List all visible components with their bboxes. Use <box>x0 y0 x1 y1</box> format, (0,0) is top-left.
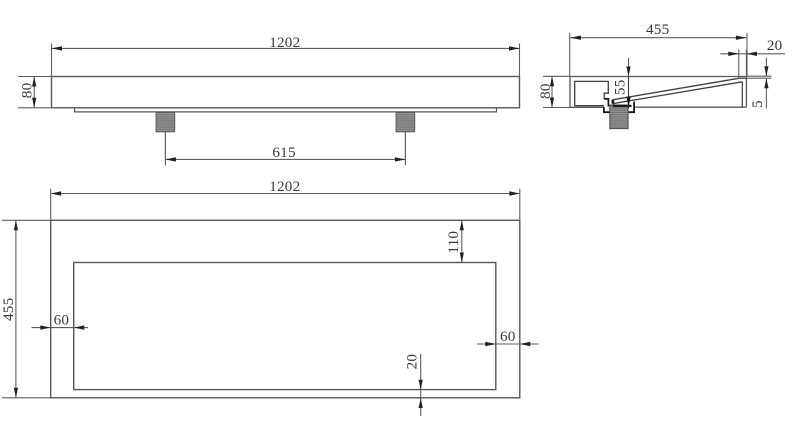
dim 5: dimension line upper <box>765 58 767 77</box>
dim 80 front: arrows <box>32 77 36 87</box>
dim 5: arrows <box>764 66 768 76</box>
dim 615: dimension line <box>165 158 405 160</box>
dim 60 left: arrows <box>40 325 51 329</box>
svg-text:80: 80 <box>18 82 35 98</box>
svg-text:455: 455 <box>646 21 669 38</box>
basin bottom plate upper slant <box>612 78 738 100</box>
dim 455 plan: dimension line <box>15 220 17 397</box>
dim 80 side: dimension line <box>551 76 553 107</box>
dim 20 plan: dimension line <box>420 354 422 416</box>
section left edge <box>569 77 571 108</box>
plan inner rect <box>74 263 496 390</box>
dim 20 plan: arrows <box>419 380 423 390</box>
dim 80 front: dimension line <box>33 77 35 108</box>
dim 60 right: arrows <box>485 342 496 346</box>
dim 455 plan: arrows <box>14 220 18 230</box>
front bottom lip <box>75 108 497 112</box>
dim 1202 plan: dimension line <box>51 193 519 195</box>
section top edge <box>570 76 746 78</box>
svg-text:60: 60 <box>500 328 516 345</box>
hook detail (dark) <box>604 99 613 106</box>
mounting channel (dark) <box>604 102 634 113</box>
dim 55: through line <box>628 77 630 109</box>
dim 80 side: extension lines <box>543 75 570 77</box>
dim 1202 front: dimension line <box>52 47 519 49</box>
dim 455: arrows <box>570 36 581 40</box>
dim 55: arrows <box>626 67 630 77</box>
svg-text:60: 60 <box>54 312 70 329</box>
centerline bracket B1 <box>164 132 166 166</box>
back leg inner edge <box>741 82 743 107</box>
dim 60 right: dimension line <box>477 343 539 345</box>
plan outer rect <box>51 220 520 397</box>
svg-text:80: 80 <box>537 83 554 99</box>
plate left end cap <box>611 100 613 104</box>
dim 55: dimension line above <box>628 58 630 77</box>
dim 60 left: dimension line <box>32 327 88 329</box>
svg-text:110: 110 <box>445 231 462 254</box>
basin bottom plate lower slant <box>612 82 742 104</box>
svg-text:1202: 1202 <box>269 34 300 51</box>
svg-text:5: 5 <box>749 100 766 108</box>
dim 80 side: arrows <box>550 76 554 86</box>
bracket B2 <box>396 112 415 131</box>
dim 455: extension lines <box>569 33 571 76</box>
svg-text:615: 615 <box>272 144 295 161</box>
svg-text:55: 55 <box>611 80 628 96</box>
section bottom edge right <box>634 106 746 108</box>
dim 1202 front: arrows <box>52 46 63 50</box>
dim 5: extension lines <box>747 75 771 77</box>
dim 1202 plan: arrows <box>51 191 62 195</box>
dim 455 plan: extension lines <box>2 219 51 221</box>
front body <box>52 77 520 108</box>
svg-text:455: 455 <box>0 298 17 321</box>
rim bottom line at right <box>739 77 747 79</box>
svg-text:20: 20 <box>404 354 421 370</box>
svg-text:20: 20 <box>767 37 783 54</box>
dim 110: dimension line <box>461 220 463 262</box>
bracket B1 <box>156 112 175 131</box>
hook top dark band <box>613 105 632 107</box>
centerline bracket B2 <box>404 132 406 166</box>
dim 455: dimension line <box>570 37 746 39</box>
apron inner cavity <box>575 81 609 105</box>
dim 80 front: extension lines <box>18 76 52 78</box>
dim 1202 plan: extension lines <box>50 189 52 221</box>
section right edge <box>745 77 747 108</box>
dim 615: arrows <box>165 157 176 161</box>
bracket block (section) <box>610 105 628 129</box>
dim 110: arrows <box>460 220 464 230</box>
dim 20: dimension line <box>720 53 785 55</box>
dim 20: extension lines <box>738 50 740 79</box>
dim 20: arrows <box>728 52 739 56</box>
section bottom edge left <box>570 106 604 108</box>
dim 5: dimension line lower <box>765 78 767 108</box>
dim 1202 front: extension lines <box>51 44 53 77</box>
svg-text:1202: 1202 <box>269 178 300 195</box>
